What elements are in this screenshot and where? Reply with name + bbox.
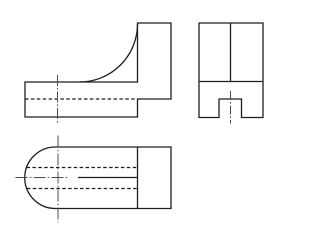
front view: outline of L-shaped bracket [25, 23, 171, 117]
side view: notch center line [230, 91, 232, 124]
front view: hidden line (slot top surface) [25, 98, 137, 100]
top view: horizontal center line [16, 177, 70, 179]
front view: fillet arc R58 tangent to base top and column left edge [80, 24, 138, 82]
front view: vertical center line [57, 75, 59, 125]
top view: vertical center line [57, 136, 59, 223]
side view: outline with bottom notch [199, 23, 263, 118]
top view: solid slot edge line [78, 177, 138, 179]
side view: horizontal divider (base top edge) [199, 81, 263, 83]
top view: lower hidden line (slot side) [27, 188, 138, 190]
top view: outline with rounded left end [25, 147, 171, 209]
side view: middle vertical edge [230, 23, 232, 82]
top view: upper hidden line (slot side) [27, 167, 138, 169]
top view: vertical divider edge [137, 147, 139, 209]
